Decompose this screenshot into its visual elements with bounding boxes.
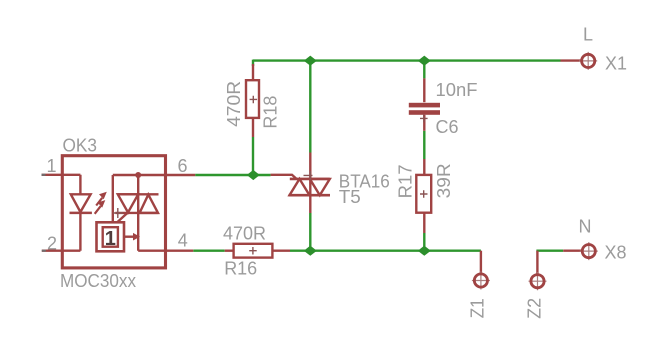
triac T5 right triangle [310, 179, 330, 195]
svg-text:N: N [579, 217, 592, 237]
svg-text:4: 4 [178, 230, 188, 250]
triac T5 MT2 pin [309, 153, 311, 180]
wire top net L from R18 to X1 [253, 60, 561, 66]
svg-text:6: 6 [178, 156, 188, 176]
terminal Z2 origin cross [529, 272, 547, 290]
svg-text:470R: 470R [224, 81, 244, 127]
wire bottom net R16 to Z1 corner [290, 249, 481, 251]
wire R18 bottom to pin6 net [252, 137, 254, 175]
optocoupler OK3 light arrow 2 [95, 200, 106, 214]
triac T5 gate pin [271, 175, 297, 179]
optocoupler OK3 origin cross [113, 208, 123, 218]
resistor R16 left pin [225, 249, 234, 251]
resistor R16 body [234, 244, 273, 258]
resistor R16 origin cross [249, 247, 257, 255]
svg-text:X8: X8 [605, 243, 627, 263]
svg-text:Z2: Z2 [525, 298, 545, 319]
terminal X1 circle [582, 54, 595, 67]
resistor R16 right pin [272, 249, 290, 251]
optocoupler OK3 pin 6 stub [167, 174, 196, 176]
optocoupler OK3 gate diagonal [117, 212, 128, 222]
wire from top net down to C6 [423, 61, 425, 79]
svg-text:L: L [583, 25, 593, 45]
optocoupler OK3 substrate box outer [97, 222, 125, 251]
optocoupler OK3 substrate box inner [103, 227, 118, 247]
junction node R18 bottom / pin6 net [247, 170, 260, 180]
svg-text:10nF: 10nF [436, 80, 478, 100]
wire pin6 net horizontal to triac gate [195, 174, 270, 176]
resistor R17 body [416, 175, 431, 213]
resistor R17 origin cross [420, 190, 428, 198]
resistor R18 origin cross [250, 96, 258, 104]
svg-text:470R: 470R [223, 224, 266, 244]
svg-text:X1: X1 [605, 54, 627, 74]
junction node R17 / bottom net [418, 246, 431, 256]
terminal X1 origin cross [579, 52, 597, 70]
optocoupler OK3 inner pin6 rail [113, 174, 167, 176]
wire R17 to bottom net [423, 233, 425, 251]
wire MT2 vertical from top net to triac T5 [309, 61, 311, 153]
wire C6 to R17 [423, 131, 425, 159]
junction node at C6 top / net L [418, 56, 431, 66]
terminal Z2 circle [531, 275, 544, 288]
capacitor C6 bottom plate [409, 110, 440, 115]
triac T5 top bar [290, 178, 330, 181]
optocoupler OK3 inner pin4 rail [138, 249, 166, 251]
terminal X8 origin cross [580, 242, 598, 260]
optocoupler OK3 inner junction dot [135, 172, 141, 178]
optocoupler OK3 gate arrow to center line [124, 235, 134, 237]
svg-text:R17: R17 [396, 164, 416, 198]
wire R18 top pin to top net corner [252, 64, 254, 80]
triac T5 left triangle [290, 179, 310, 195]
terminal X1 pin [561, 59, 582, 61]
optocoupler OK3 light arrow 1 [96, 192, 107, 206]
resistor R17 top pin [423, 159, 425, 175]
terminal Z1 circle [474, 274, 487, 287]
svg-text:39R: 39R [434, 163, 454, 198]
capacitor C6 origin cross [420, 115, 428, 123]
optocoupler OK3 photo-triac center line [137, 175, 139, 251]
svg-text:Z1: Z1 [468, 298, 488, 318]
terminal Z1 pin [480, 251, 482, 274]
resistor R18 body [246, 80, 259, 118]
svg-text:R16: R16 [224, 259, 257, 279]
svg-text:2: 2 [47, 234, 57, 254]
svg-text:1: 1 [47, 156, 57, 176]
junction node at R18 top / net L [304, 56, 317, 66]
wire bottom net pin4 to R16 [193, 249, 225, 251]
optocoupler OK3 photo-triac top bar [117, 193, 158, 195]
optocoupler OK3 photo-triac left triangle [118, 194, 138, 212]
optocoupler OK3 photo-triac right triangle [140, 195, 158, 213]
optocoupler OK3 photo-triac bottom bar [115, 212, 158, 214]
triac T5 center line [309, 179, 311, 213]
triac T5 bottom bar [289, 194, 330, 197]
resistor R17 bottom pin [423, 213, 425, 233]
optocoupler OK3 LED cathode bar [70, 212, 92, 215]
resistor R18 top pin stub [252, 118, 254, 137]
terminal X8 pin [563, 249, 582, 251]
capacitor C6 top plate [409, 103, 440, 108]
triac T5 origin cross [304, 171, 313, 180]
optocoupler OK3 inner cathode lead [62, 213, 80, 251]
optocoupler OK3 pin 1 stub [42, 174, 63, 176]
svg-text:C6: C6 [436, 117, 459, 137]
svg-text:OK3: OK3 [63, 135, 98, 155]
optocoupler OK3 inner anode lead [62, 175, 80, 195]
optocoupler OK3 inner left drop line [112, 175, 114, 222]
terminal Z2 pin [536, 251, 538, 275]
svg-text:T5: T5 [339, 187, 361, 207]
junction node MT1 / bottom net [304, 246, 317, 256]
svg-text:R18: R18 [261, 96, 281, 129]
wire MT1 of T5 down to bottom net [309, 213, 311, 251]
optocoupler OK3 body box [62, 156, 165, 268]
wire X8 horizontal green segment [536, 249, 563, 251]
capacitor C6 top pin [423, 78, 425, 102]
optocoupler OK3 LED triangle [71, 194, 91, 212]
optocoupler OK3 pin 4 stub [167, 249, 194, 251]
terminal X8 circle [582, 245, 595, 258]
capacitor C6 bottom pin [423, 115, 425, 131]
terminal Z1 origin cross [472, 272, 490, 290]
optocoupler OK3 pin 2 stub [42, 249, 63, 251]
optocoupler OK3 pin 2 tip mark [42, 250, 46, 252]
svg-text:1: 1 [105, 228, 116, 250]
optocoupler OK3 pin 1 tip mark [42, 174, 46, 176]
svg-text:MOC30xx: MOC30xx [60, 271, 136, 291]
